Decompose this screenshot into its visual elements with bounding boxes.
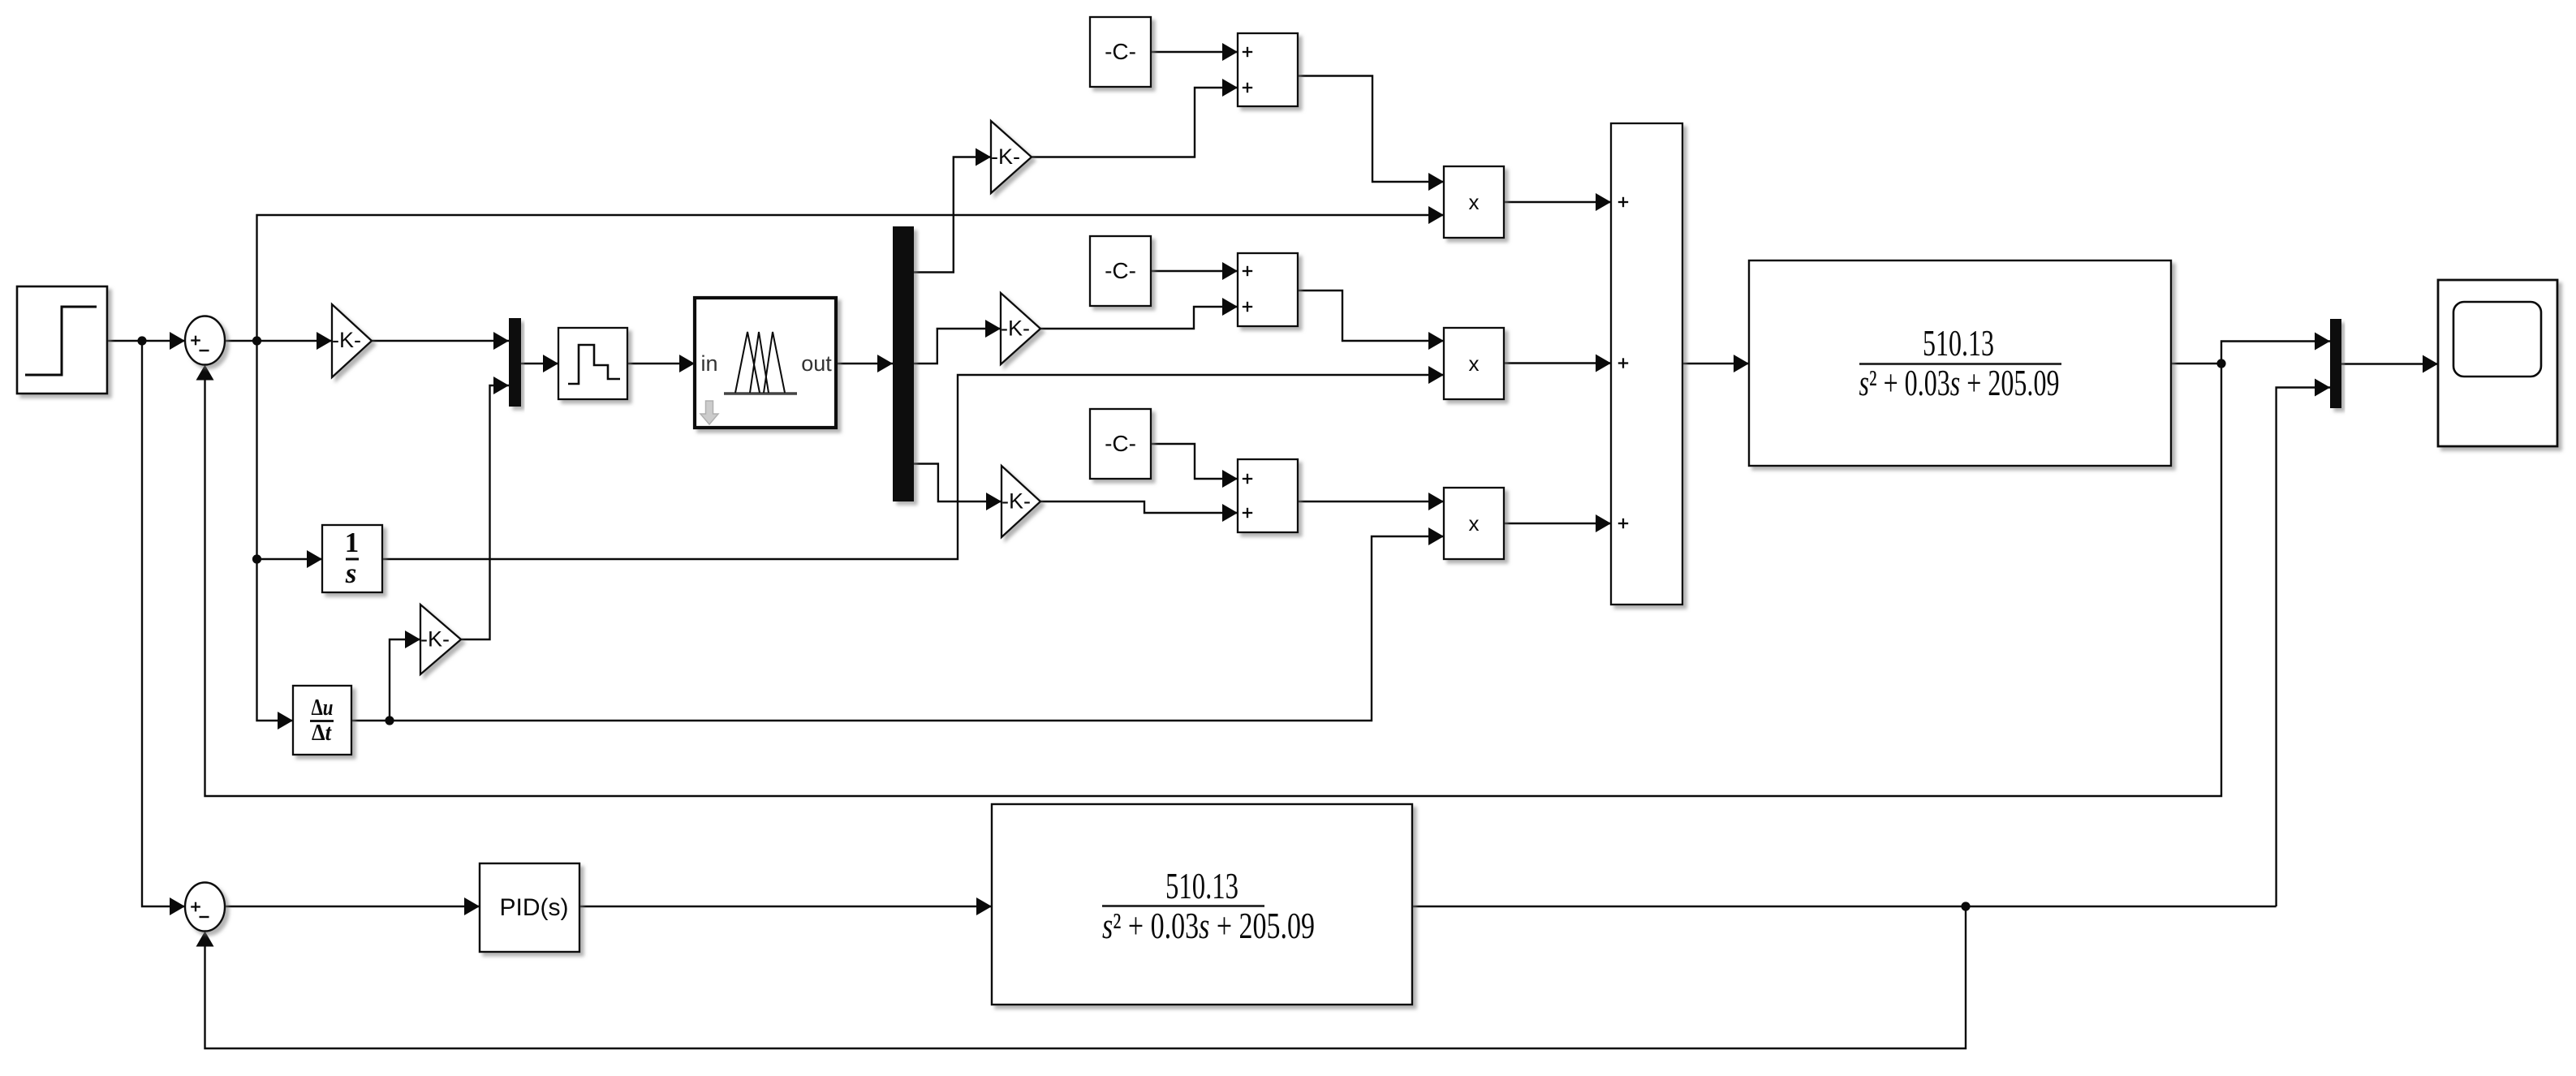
svg-text:510.13: 510.13 [1165,865,1238,906]
arrowhead up into error sum minus port [196,365,214,381]
arrowhead into integrator 1/s [307,550,322,568]
arrowhead into product Product3 input 2 [1428,527,1444,545]
svg-text:510.13: 510.13 [1923,322,1994,364]
arrowhead into big sum Add4 input 1 [1596,193,1611,211]
gain K2 triangle [1001,293,1040,364]
scope block [2438,280,2557,446]
wire error sum output to gain Ke [225,340,332,342]
wire product Product2 output to big sum Add4 input 2 [1504,362,1611,364]
svg-text:PID(s): PID(s) [500,894,569,921]
constant C3 block [1090,409,1151,479]
arrowhead into derivative du/dt [278,712,293,730]
wire error to integrator 1/s [257,558,323,560]
svg-text:Δu: Δu [312,695,334,721]
arrowhead into adder Add1 input 1 [1222,43,1238,61]
arrowhead into transfer fcn 2 [976,897,992,915]
wire gain K2 output to adder Add2 input 2 [1040,307,1238,329]
wire demux output 2 to gain K2 [914,329,1001,364]
integrator 1/s block [322,525,382,592]
arrowhead into product Product3 input 1 [1428,493,1444,510]
wire PID controller output to transfer fcn plant 2 [579,906,992,907]
svg-text:s: s [345,557,357,589]
node derivative tap [385,716,394,725]
arrowhead into mux Mux1 input 2 [493,377,509,394]
arrowhead into gain K1 [976,148,991,166]
wire demux output 1 to gain K1 [914,157,991,273]
wire adder Add3 output to product Product3 input 1 [1297,501,1444,502]
svg-text:-C-: -C- [1105,39,1136,64]
wire gain K1 output to adder Add1 input 2 [1032,88,1238,157]
node plant 2 output branch [1961,902,1970,910]
arrowhead into fuzzy controller [679,355,695,372]
wire mux Mux2 output to scope [2341,363,2438,364]
svg-text:s² + 0.03s + 205.09: s² + 0.03s + 205.09 [1859,362,2060,403]
wire gain Ke output to mux Mux1 input 1 [372,340,509,342]
wire demux output 3 to gain K3 [914,464,1002,502]
arrowhead into adder Add3 input 1 [1222,470,1238,488]
transfer fcn plant 1 block [1749,260,2171,466]
arrowhead into product Product2 input 1 [1428,332,1444,350]
arrowhead into mux Mux1 input 1 [493,332,509,350]
error summing junction [185,316,225,365]
wire fuzzy controller output to demux [836,363,893,364]
arrowhead into big sum Add4 input 3 [1596,514,1611,532]
wire derivative output to product Product3 input 2 [351,536,1444,721]
arrowhead into gain K3 [986,493,1002,510]
svg-text:-K-: -K- [1002,489,1031,514]
arrowhead into mux Mux2 input 2 [2315,379,2330,397]
arrowhead into PID controller [464,897,480,915]
svg-text:s² + 0.03s + 205.09: s² + 0.03s + 205.09 [1102,905,1315,946]
wire product Product1 output to big sum Add4 input 1 [1504,201,1611,203]
node integrator tap [252,554,261,563]
wire adder Add2 output to product Product2 input 1 [1298,291,1444,341]
PID controller block [480,863,579,952]
wire plant output up to mux Mux2 input 1 [2221,342,2330,364]
arrowhead into demux [877,355,893,372]
wire gain K3 output to adder Add3 input 2 [1040,501,1238,513]
wire derivative branch to gain Kd [390,639,420,721]
arrowhead into error sum [170,332,185,350]
adder Add2 block [1238,253,1298,326]
svg-text:-C-: -C- [1105,258,1136,283]
product Product1 block [1444,166,1504,238]
wire adder Add1 output to product Product1 input 1 [1298,76,1444,183]
node error branch [252,336,261,345]
demux [893,226,914,501]
fuzzy logic controller block [695,298,836,428]
adder Add3 block [1238,459,1298,532]
svg-text:-K-: -K- [420,627,450,652]
wire constant C2 to adder Add2 input 1 [1151,270,1238,272]
mux Mux2 [2330,319,2341,408]
wire big sum Add4 output to transfer fcn plant 1 [1682,363,1749,364]
svg-text:-K-: -K- [1001,316,1030,341]
svg-text:in: in [700,351,717,376]
PID summing junction [185,883,225,932]
adder Add1 block [1238,33,1298,106]
wire step output to error sum [107,340,185,342]
svg-text:-K-: -K- [332,328,361,352]
node reference branch [137,336,146,345]
gain K3 triangle [1002,466,1040,537]
arrowhead into product Product1 input 1 [1428,173,1444,191]
mux Mux1 [509,318,521,407]
svg-text:Δt: Δt [312,721,332,746]
arrowhead into gain Kd [405,631,420,648]
constant C1 block [1090,17,1151,87]
wire integrator output to product Product2 input 2 [382,375,1444,559]
arrowhead into adder Add2 input 1 [1222,262,1238,280]
wire constant C3 to adder Add3 input 1 [1151,444,1238,479]
svg-text:x: x [1469,511,1480,536]
arrowhead into product Product1 input 2 [1428,206,1444,224]
node plant 1 output branch [2216,359,2225,368]
wire product Product3 output to big sum Add4 input 3 [1504,523,1611,524]
wire error branch down to integrator and derivative [257,341,294,721]
wire mux Mux1 output to quantizer [521,363,558,364]
svg-text:x: x [1469,190,1480,214]
wire fuzzy loop feedback to error sum [205,364,2222,796]
product Product2 block [1444,328,1504,399]
arrowhead into quantizer [543,355,558,372]
wire reference branch down to PID loop sum [142,341,185,906]
arrowhead into gain K2 [985,320,1001,338]
wire constant C1 to adder Add1 input 1 [1151,51,1238,53]
arrowhead into product Product2 input 2 [1428,366,1444,384]
arrowhead into big sum Add4 input 2 [1596,355,1611,372]
wire PID loop feedback to PID sum [205,906,1966,1048]
gain Ke triangle [332,304,372,377]
arrowhead up into PID sum minus port [196,932,214,947]
wire transfer fcn 2 output toward mux Mux2 [1412,906,2277,907]
arrowhead into adder Add2 input 2 [1222,298,1238,316]
gain Kd triangle [420,605,461,674]
gain K1 triangle [991,121,1032,193]
arrowhead into adder Add3 input 2 [1222,504,1238,522]
wire PID plant output up to mux Mux2 input 2 [2277,388,2330,907]
constant C2 block [1090,236,1151,306]
wire transfer fcn 1 output to branch node [2171,363,2221,364]
arrowhead into transfer fcn 1 [1734,355,1749,372]
step source block [17,286,107,394]
arrowhead into gain Ke [317,332,332,350]
transfer fcn plant 2 block [992,804,1412,1005]
arrowhead into adder Add1 input 2 [1222,79,1238,97]
quantizer block [558,328,627,399]
svg-text:out: out [801,351,832,376]
wire PID sum output to PID controller [225,906,480,907]
derivative du/dt block [293,686,351,755]
wire gain Kd output up to mux Mux1 input 2 [461,385,509,639]
wire error branch up to product Product1 input 2 [257,215,1445,341]
svg-text:x: x [1469,351,1480,376]
arrowhead into scope [2423,355,2438,373]
svg-text:-C-: -C- [1105,431,1136,456]
svg-text:-K-: -K- [991,144,1020,169]
arrowhead into mux Mux2 input 1 [2315,333,2330,351]
product Product3 block [1444,488,1504,559]
arrowhead into PID sum [170,897,185,915]
wire quantizer output to fuzzy controller input [627,363,695,364]
big sum Add4 block [1611,123,1682,605]
svg-text:1: 1 [345,527,360,558]
